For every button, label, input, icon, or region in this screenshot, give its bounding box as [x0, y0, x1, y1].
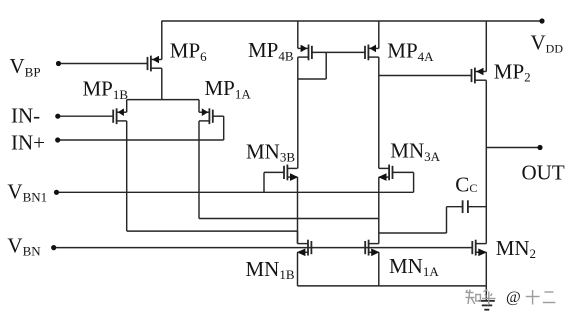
wire MN1B source down — [297, 252, 299, 286]
transistor MP6 — [148, 56, 162, 72]
svg-text:MP4B: MP4B — [248, 38, 294, 63]
wire MN3A source down — [378, 177, 380, 244]
transistor MN2 — [472, 240, 487, 256]
svg-text:OUT: OUT — [522, 160, 565, 184]
node VBP terminal — [56, 61, 61, 66]
label MN1B — [246, 257, 295, 282]
transistor MN3B — [284, 165, 298, 181]
wire MP1A drain to MN3A source — [199, 218, 379, 220]
wire MP4B gate to MP4A gate — [312, 51, 365, 53]
label CC — [455, 172, 477, 196]
wire CC left lead — [379, 207, 463, 233]
wire MP2 source to VDD — [485, 21, 487, 72]
label MP4A — [387, 39, 434, 64]
svg-text:VBN: VBN — [7, 234, 41, 259]
watermark shier glyphs — [526, 290, 556, 305]
wire IN- input — [58, 115, 113, 117]
svg-text:MN1A: MN1A — [389, 254, 439, 279]
svg-text:MN2: MN2 — [496, 236, 536, 261]
wire ground rail — [298, 285, 487, 287]
svg-text:MP6: MP6 — [170, 39, 207, 64]
wire MP4A drain to MP2 gate — [379, 75, 472, 77]
label IN- — [11, 103, 40, 127]
wire VBP input — [59, 63, 148, 65]
wire MN3A gate link — [393, 172, 414, 192]
svg-text:IN+: IN+ — [11, 131, 45, 155]
transistor MP4A — [365, 45, 379, 61]
svg-text:VBP: VBP — [10, 54, 41, 79]
wire MN1B drain up — [297, 231, 299, 244]
capacitor CC — [463, 200, 468, 213]
wire MP4A drain down — [378, 57, 380, 168]
wire MN1A source down — [378, 252, 380, 286]
svg-text:MP2: MP2 — [494, 59, 531, 84]
label MP1A — [205, 76, 252, 101]
wire OUT — [486, 147, 540, 149]
label MP1B — [83, 77, 129, 102]
wire MP1A gate link — [213, 116, 224, 140]
svg-text:MP1B: MP1B — [83, 77, 129, 102]
wire IN+ input — [58, 139, 224, 141]
node IN+ terminal — [55, 137, 60, 142]
label OUT — [522, 160, 565, 184]
watermark zhihu glyphs — [466, 290, 496, 305]
wire VBN1 input — [57, 191, 414, 193]
svg-text:@: @ — [506, 289, 521, 306]
svg-text:IN-: IN- — [11, 103, 40, 127]
wire MP1B drain down — [126, 121, 128, 231]
wire CC right lead — [468, 206, 486, 208]
node VBN1 terminal — [54, 190, 59, 195]
wire MP1B drain to MN3B source — [127, 230, 298, 232]
wire tail node — [127, 99, 199, 101]
node OUT terminal — [537, 145, 542, 150]
wire MP6 drain to tail node — [161, 68, 163, 99]
wire MP4B diode loop — [298, 52, 326, 79]
label MP2 — [494, 59, 531, 84]
wire VBN input — [54, 247, 473, 249]
label MN3A — [390, 139, 440, 164]
wire MP1B source up — [126, 100, 128, 113]
label IN+ — [11, 131, 45, 155]
transistor MP4B — [298, 45, 312, 61]
svg-text:MN3A: MN3A — [390, 139, 440, 164]
wire MN3B source down — [297, 177, 299, 244]
ground — [479, 286, 495, 310]
transistor MN1A — [365, 240, 379, 256]
label VBN — [7, 234, 41, 259]
label MP6 — [170, 39, 207, 64]
svg-text:MP1A: MP1A — [205, 76, 252, 101]
watermark handle — [506, 289, 521, 306]
label MN2 — [496, 236, 536, 261]
wire MP1A drain down — [198, 121, 200, 219]
node VDD rail — [162, 20, 543, 22]
transistor MN1B — [297, 240, 312, 256]
wire MP6 source to VDD — [161, 21, 163, 60]
wire MP1A source up — [198, 100, 200, 113]
svg-text:MP4A: MP4A — [387, 39, 434, 64]
wire MP4A source to VDD — [378, 21, 380, 48]
wire MP4B drain down — [297, 57, 299, 168]
power VDD terminal — [539, 18, 544, 23]
label MN1A — [389, 254, 439, 279]
node IN- terminal — [55, 114, 60, 119]
node VBN terminal — [51, 245, 56, 250]
transistor MN3A — [378, 165, 392, 181]
label MN3B — [246, 139, 295, 164]
label VBN1 — [7, 180, 47, 205]
transistor MP2 — [472, 68, 487, 84]
svg-text:VDD: VDD — [531, 31, 564, 56]
label VBP — [10, 54, 41, 79]
svg-text:MN3B: MN3B — [246, 139, 295, 164]
transistor MP1A — [199, 108, 213, 124]
svg-text:VBN1: VBN1 — [7, 180, 47, 205]
wire output node vertical — [485, 80, 487, 243]
svg-text:MN1B: MN1B — [246, 257, 295, 282]
svg-text:CC: CC — [455, 172, 477, 196]
wire MP4B source to VDD — [297, 21, 299, 48]
wire MN2 source down — [485, 252, 487, 286]
wire MN3B gate link — [264, 172, 284, 192]
transistor MP1B — [113, 108, 127, 124]
label VDD — [531, 31, 564, 56]
label MP4B — [248, 38, 294, 63]
